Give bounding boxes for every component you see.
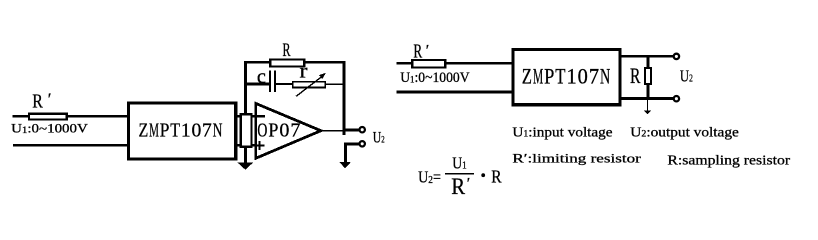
wire: bottom terminal to ground [346,144,359,162]
resistor R' (right circuit limiting resistor) [412,60,445,68]
resistor across secondary (vertical box at op-amp input) [241,114,252,147]
ground (output reference) [339,162,351,169]
variable resistor r (trimmer body) [293,82,325,88]
op-amp inverting input minus sign [257,115,265,117]
svg-text:ZMPT107N: ZMPT107N [139,120,223,142]
resistor R' (left circuit limiting resistor) [29,114,67,120]
label c (capacitor) [257,64,266,88]
wire: right circuit top input wire [397,62,514,65]
svg-text:OP07: OP07 [257,119,300,141]
wire: right circuit bottom output wire [620,97,674,100]
variable resistor r arrow [296,73,326,97]
wire: c-r branch right segment [326,83,345,85]
svg-text:ZMPT107N: ZMPT107N [522,63,610,88]
note R: sampling resistor [667,152,790,167]
note U2: output voltage [630,125,739,140]
svg-text:U1:input voltage: U1:input voltage [512,125,612,140]
note U1: input voltage [512,125,612,140]
terminal: output bottom [360,141,365,146]
transformer module ZMPT107N (right circuit) [513,49,620,104]
label R' (left circuit) [32,89,51,112]
wire: feedback left vertical from inverting node up [244,61,247,114]
label R (sampling resistor) [630,63,641,88]
formula denominator R' [451,174,470,199]
svg-text:R: R [491,167,501,187]
wire: output node to top terminal [343,128,359,131]
label ZMPT107N (left circuit) [139,120,223,142]
formula numerator U1 [452,154,467,173]
wire: right circuit bottom input wire [397,91,514,94]
wire: feedback top horizontal [244,61,345,64]
wire: sampling resistor bottom lead [647,85,650,99]
op-amp non-inverting input plus sign [255,141,264,150]
terminal: right circuit output bottom [674,96,679,101]
label R (feedback resistor) [283,40,291,61]
label ZMPT107N (right circuit) [522,63,610,88]
wire: c-r branch middle segment [276,83,293,85]
wire: feedback right vertical down to output node [342,61,345,135]
wire: sampling resistor top lead [647,56,650,68]
label U1:0~1000V (right circuit) [400,70,470,86]
formula dot operator [481,173,485,177]
wire: op-amp output [321,130,344,132]
resistor R (feedback resistor, left circuit) [270,59,304,66]
svg-text:R′:limiting resistor: R′:limiting resistor [512,150,641,165]
svg-text:R:sampling resistor: R:sampling resistor [667,152,790,167]
capacitor c plates [270,71,275,92]
terminal: output top [360,127,365,132]
note R': limiting resistor [512,150,641,165]
wire: ground stem under secondary resistor [244,147,247,163]
transformer module ZMPT107N (left circuit) [129,103,236,159]
formula R factor [491,167,501,187]
wire: c-r branch left segment [245,83,269,86]
svg-text:R: R [630,63,641,88]
wire: left circuit bottom input wire [13,144,131,147]
wire: secondary bottom lead to op-amp non-inverting input [237,144,256,147]
formula fraction bar [445,173,474,175]
resistor R (sampling resistor body) [645,68,651,84]
svg-text:r: r [300,61,308,83]
formula U2 = (U1/R') * R : left part U2= [418,167,441,186]
label R' (right circuit) [413,42,429,63]
ground (under secondary resistor) [238,163,254,170]
wire: ground stem (right circuit) [647,98,649,111]
wire: left circuit top input wire [13,115,131,118]
op-amp U OP07 body [256,103,321,158]
label U1:0~1000V (left circuit) [11,122,88,136]
label OP07 [257,119,300,141]
svg-text:c: c [257,64,266,88]
ground (right circuit, arrow style) [644,111,652,115]
wire: right circuit top output wire [620,55,674,58]
svg-text:U2:output voltage: U2:output voltage [630,125,739,140]
label r (variable resistor) [300,61,308,83]
wire: secondary top lead to op-amp inverting input [237,115,256,118]
svg-text:R: R [283,40,291,61]
label U2 (right circuit output) [680,66,693,85]
label U2 (left circuit output) [373,129,385,146]
terminal: right circuit output top [674,54,679,59]
